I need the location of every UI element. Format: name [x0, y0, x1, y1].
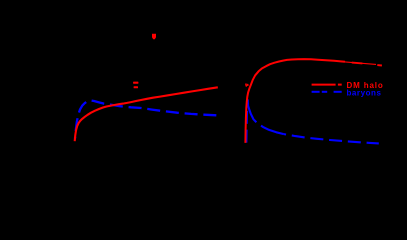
right panel: DM halo tail end chunk	[377, 64, 382, 66]
red equals sign	[133, 82, 138, 89]
left panel: DM halo curve (red solid)	[75, 87, 218, 141]
right panel: baryons declining curve flat tail (blue dashed)	[283, 134, 379, 143]
red nu glyph (axis annotation)	[246, 84, 248, 86]
right panel: DM halo curve (red solid)	[245, 59, 345, 143]
left panel: baryons curve (blue dashed)	[75, 100, 218, 138]
red marker (title glyph)	[152, 34, 156, 40]
right panel: baryons declining curve steep part (blue dashed)	[248, 100, 284, 135]
right panel: DM halo tail bright dash 1	[352, 62, 363, 65]
right panel: DM halo curve fading tail (thin red)	[345, 62, 376, 65]
legend: DM halo sample line (red)	[312, 84, 342, 86]
right panel: baryons rising branch (blue dashed, behind red)	[246, 100, 247, 143]
svg-text:baryons: baryons	[347, 88, 382, 97]
legend: baryons sample line (blue dashed)	[312, 91, 342, 93]
